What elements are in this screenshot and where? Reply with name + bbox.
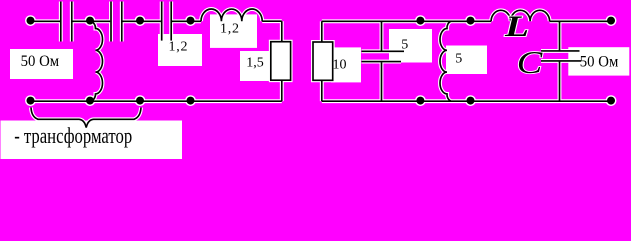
node bottom D: [416, 97, 424, 105]
black ink pass of circuit artwork: [31, 2, 612, 128]
node bottom A halo: [85, 95, 96, 106]
label box C1 value: [158, 34, 202, 66]
svg-text:L: L: [504, 10, 529, 43]
node top output halo: [606, 15, 617, 26]
white anti-alias halo pass of circuit artwork: [31, 2, 612, 128]
svg-text:10: 10: [333, 57, 347, 72]
node top C halo: [185, 15, 196, 26]
node top B halo: [135, 15, 146, 26]
node bottom E: [467, 97, 475, 105]
svg-text:1,2: 1,2: [169, 40, 188, 55]
node bottom A: [86, 97, 94, 105]
node bottom B halo: [135, 95, 146, 106]
svg-text:1,2: 1,2: [220, 22, 239, 37]
label box 50 Ohm source: [10, 49, 73, 79]
svg-text:50 Ом: 50 Ом: [21, 53, 60, 70]
label box 50 Ohm load: [568, 47, 629, 75]
svg-text:C: C: [517, 44, 543, 80]
label box R2 value: [331, 47, 361, 82]
node top C: [187, 17, 195, 25]
node bottom output: [607, 97, 615, 105]
label box transformer caption: [1, 121, 183, 160]
node top output: [607, 17, 615, 25]
node bottom B: [136, 97, 144, 105]
label box R1 value: [240, 51, 271, 81]
node bottom E halo: [465, 95, 476, 106]
node bottom C: [187, 97, 195, 105]
node top D: [416, 17, 424, 25]
node top E: [467, 17, 475, 25]
node top input halo: [25, 15, 36, 26]
node bottom input: [27, 97, 35, 105]
svg-text:5: 5: [401, 37, 408, 52]
svg-text:- трансформатор: - трансформатор: [14, 123, 132, 148]
label box L3 value: [446, 46, 487, 75]
label box L1 value: [210, 14, 257, 48]
svg-text:50 Ом: 50 Ом: [580, 53, 619, 70]
node bottom D halo: [415, 95, 426, 106]
node top A halo: [85, 15, 96, 26]
node top A: [86, 17, 94, 25]
svg-text:1,5: 1,5: [246, 56, 263, 71]
node top B: [136, 17, 144, 25]
node bottom input halo: [25, 95, 36, 106]
node top input: [27, 17, 35, 25]
node bottom output halo: [606, 95, 617, 106]
node bottom C halo: [185, 95, 196, 106]
svg-text:5: 5: [455, 51, 462, 66]
node top D halo: [415, 15, 426, 26]
node top E halo: [465, 15, 476, 26]
label box C4 value: [389, 29, 432, 63]
